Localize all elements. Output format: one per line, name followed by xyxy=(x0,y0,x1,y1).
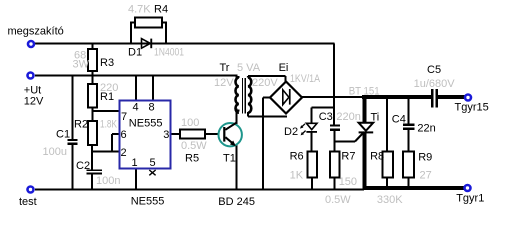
wire bridge DC out xyxy=(302,96,364,98)
wire secondary top to bridge xyxy=(248,75,286,77)
wire D2 top xyxy=(311,108,313,124)
transformer secondary stubs xyxy=(247,76,249,78)
IC U1 NE555 box xyxy=(120,101,171,169)
wire R3 to R1 xyxy=(92,71,94,84)
wire rail to primary winding stub xyxy=(235,75,237,81)
wire C2 to bottom rail xyxy=(91,174,93,190)
LED D2 xyxy=(306,123,317,133)
wire top megszakito rail xyxy=(35,22,409,190)
thyristor Ti xyxy=(359,123,374,134)
wire bridge AC2 to bottom rail xyxy=(262,98,264,191)
svg-text:22n: 22n xyxy=(417,122,435,134)
svg-text:6: 6 xyxy=(121,129,127,141)
svg-text:1KV/1A: 1KV/1A xyxy=(290,73,321,85)
svg-text:BT 151: BT 151 xyxy=(349,85,380,97)
svg-text:C2: C2 xyxy=(76,160,90,172)
transformer Tr primary winding xyxy=(236,78,239,113)
svg-text:7: 7 xyxy=(121,111,127,123)
svg-text:8: 8 xyxy=(149,102,155,114)
wire T1 collector to winding xyxy=(235,109,237,125)
transformer core xyxy=(243,78,246,114)
wire D2 to R6 xyxy=(311,132,313,151)
LED D2 emission arrows xyxy=(300,124,306,136)
transformer primary bottom stub xyxy=(236,110,239,112)
wire R4 left leg xyxy=(130,22,132,44)
resistor R5 xyxy=(180,130,205,139)
wire R5 to T1 base xyxy=(205,133,220,135)
wire thick DC bus right of C5 xyxy=(438,95,465,99)
transistor T1 xyxy=(219,123,242,146)
resistor R7 xyxy=(330,151,340,177)
wire T1 emitter to bottom rail xyxy=(235,145,237,190)
wire megszakito vertical drop to C3 xyxy=(333,43,335,125)
transformer primary top stub xyxy=(236,76,239,78)
svg-text:BD 245: BD 245 xyxy=(218,196,255,208)
terminal megszakito xyxy=(27,40,36,49)
wire pin6 hook vertical xyxy=(111,134,113,152)
svg-text:5: 5 xyxy=(150,157,156,169)
wire node to C2 xyxy=(91,152,93,170)
svg-text:3W: 3W xyxy=(73,58,90,70)
capacitor C3 xyxy=(330,124,340,126)
wire branch to D2 xyxy=(312,107,335,109)
svg-text:T1: T1 xyxy=(223,152,236,164)
wire C1 drop from rail xyxy=(71,76,73,140)
svg-text:R9: R9 xyxy=(418,151,432,163)
wire pin7 to R1-R2 node xyxy=(93,110,120,112)
resistor R1 xyxy=(88,84,97,108)
svg-text:27: 27 xyxy=(420,170,432,182)
svg-text:R1: R1 xyxy=(100,91,114,103)
wire R7 to bottom rail xyxy=(334,177,336,190)
wire pin4 to rail xyxy=(135,76,137,101)
svg-text:2: 2 xyxy=(121,147,127,159)
svg-text:12V: 12V xyxy=(214,77,234,89)
terminal Tgyr1 xyxy=(463,184,472,193)
terminal +Ut xyxy=(26,71,35,80)
bridge diode symbol xyxy=(283,89,291,105)
svg-text:4.7K: 4.7K xyxy=(128,3,151,15)
svg-text:100: 100 xyxy=(181,117,199,129)
wire R2 bottom xyxy=(91,145,93,152)
resistor R4 xyxy=(135,18,162,28)
svg-text:12V: 12V xyxy=(24,95,44,107)
svg-text:NE555: NE555 xyxy=(131,196,165,208)
wire bottom rail thin xyxy=(35,189,364,191)
wire R6 to bottom rail xyxy=(311,177,313,190)
wire thyristor anode xyxy=(363,95,367,123)
svg-text:Tr: Tr xyxy=(220,62,230,74)
wire thyristor cathode xyxy=(363,133,367,190)
resistor R6 xyxy=(307,151,317,177)
svg-text:R2: R2 xyxy=(74,118,88,130)
wire R3 top xyxy=(92,43,94,49)
svg-text:220n: 220n xyxy=(336,111,360,123)
capacitor C4 xyxy=(403,124,414,127)
svg-text:NE555: NE555 xyxy=(129,117,163,129)
svg-text:Ti: Ti xyxy=(371,111,380,123)
svg-text:C5: C5 xyxy=(427,64,441,76)
svg-text:330K: 330K xyxy=(377,194,403,206)
svg-text:1.8K: 1.8K xyxy=(100,118,117,130)
svg-text:R7: R7 xyxy=(341,150,355,162)
svg-text:megszakító: megszakító xyxy=(8,26,64,38)
svg-text:R4: R4 xyxy=(154,3,168,15)
svg-text:100u: 100u xyxy=(43,146,67,158)
resistor R3 xyxy=(88,18,414,178)
svg-text:1N4001: 1N4001 xyxy=(154,46,184,58)
svg-text:100n: 100n xyxy=(96,175,120,187)
wire R8 bottom xyxy=(386,177,388,188)
wire C4 top xyxy=(408,97,410,124)
svg-text:C4: C4 xyxy=(392,113,406,125)
wire R4 right leg xyxy=(165,22,167,44)
bridge rectifier Ei xyxy=(270,82,302,114)
wire pin6 horizontal xyxy=(112,133,120,135)
wire bridge left corner xyxy=(263,97,271,99)
svg-text:Ei: Ei xyxy=(279,62,289,74)
wire gate horizontal xyxy=(335,141,355,143)
pin 5 no-connect X xyxy=(149,170,155,175)
svg-text:R6: R6 xyxy=(290,150,304,162)
svg-text:220V: 220V xyxy=(252,77,278,89)
svg-text:0.5W: 0.5W xyxy=(325,194,351,206)
svg-text:D1: D1 xyxy=(128,46,142,58)
svg-text:5 VA: 5 VA xyxy=(237,62,261,74)
svg-text:1: 1 xyxy=(132,157,138,169)
capacitor C5 xyxy=(431,89,434,108)
svg-text:D2: D2 xyxy=(284,126,298,138)
diode D1 xyxy=(142,39,153,49)
resistor R8 xyxy=(383,151,394,177)
wire pin3 to R5 xyxy=(171,133,181,135)
wire thick DC bus left of C5 xyxy=(362,95,431,99)
svg-text:R3: R3 xyxy=(100,57,114,69)
svg-text:Tgyr1: Tgyr1 xyxy=(456,192,484,204)
svg-text:1K: 1K xyxy=(290,170,304,182)
wire C1 to bottom rail xyxy=(71,145,73,191)
svg-text:Tgyr15: Tgyr15 xyxy=(455,102,489,114)
svg-text:test: test xyxy=(19,196,37,208)
wire thyristor gate diagonal xyxy=(355,132,364,142)
svg-text:0.5W: 0.5W xyxy=(181,140,207,152)
svg-text:4: 4 xyxy=(133,102,139,114)
wire C3 to R7 xyxy=(334,131,336,152)
terminal test xyxy=(26,185,35,194)
wire pin8 to rail xyxy=(152,76,154,101)
wire pin1 to bottom rail xyxy=(135,169,137,191)
wire secondary bottom xyxy=(247,112,249,117)
wire R1 to R2 xyxy=(92,107,94,121)
capacitor C2 xyxy=(87,169,103,171)
svg-text:150: 150 xyxy=(339,176,357,188)
capacitor C1 xyxy=(68,89,439,175)
wire pin2 horizontal xyxy=(92,151,120,153)
resistor R9 xyxy=(403,151,414,177)
wire R9 bottom xyxy=(408,177,410,188)
svg-text:R5: R5 xyxy=(185,152,199,164)
wire R8 top xyxy=(386,97,388,151)
wire C4 to R9 xyxy=(408,130,410,151)
thick wires xyxy=(362,95,465,190)
transformer Tr secondary winding xyxy=(248,78,251,113)
resistor R2 xyxy=(88,121,97,145)
svg-text:1u/680V: 1u/680V xyxy=(414,78,456,90)
svg-text:3: 3 xyxy=(163,129,169,141)
terminal Tgyr15 xyxy=(464,93,473,102)
svg-text:C3: C3 xyxy=(319,111,333,123)
wire +Ut 12V rail xyxy=(35,75,238,77)
svg-text:R8: R8 xyxy=(370,150,384,162)
wire thick bottom rail xyxy=(363,186,465,190)
svg-text:C1: C1 xyxy=(56,128,70,140)
